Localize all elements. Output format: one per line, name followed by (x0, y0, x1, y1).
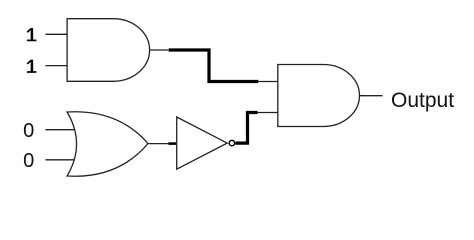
wire input stub B to AND gate U1 (46, 65, 68, 67)
label input 1 (top) (27, 28, 37, 40)
wire U3 output lead (360, 95, 383, 97)
wire U1 output lead (thin) (150, 49, 169, 51)
wire input stub C to OR gate U2 (46, 129, 76, 131)
svg-text:0: 0 (23, 120, 34, 142)
svg-text:0: 0 (23, 150, 34, 172)
wire U2 output lead (thin) (148, 143, 169, 145)
OR gate U2 (bottom-left) (67, 112, 148, 176)
NOT gate U4 inversion bubble (229, 140, 234, 145)
wire U1 to U3 input 1 (thick, logic high) (169, 50, 259, 82)
AND gate U3 (right) (278, 65, 360, 127)
wire U4 to U3 input 2 (thick, logic high) (235, 113, 257, 144)
wire nub at NOT gate input (thick) (169, 142, 178, 145)
wire input stub A to AND gate U1 (46, 33, 68, 35)
wire U3 input 1 lead (thin) (258, 81, 278, 83)
wire input stub D to OR gate U2 (46, 159, 79, 161)
svg-text:Output: Output (391, 89, 454, 112)
NOT gate U4 triangle (177, 117, 228, 169)
AND gate U1 (top-left) (67, 19, 150, 82)
label input 1 (second) (27, 60, 37, 72)
wire U3 input 2 lead (thin) (258, 112, 278, 114)
